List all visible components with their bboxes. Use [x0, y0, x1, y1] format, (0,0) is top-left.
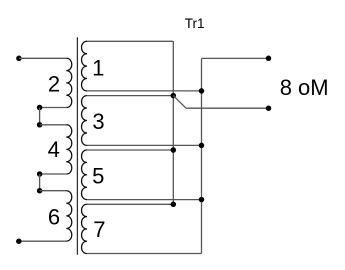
wire winding 5 bottom lead	[87, 199, 202, 201]
winding 3	[82, 96, 87, 146]
wire output plus	[202, 57, 269, 59]
junction bus A winding 5	[171, 147, 177, 153]
wire winding 7 top lead	[87, 203, 173, 205]
winding 1	[82, 41, 87, 91]
wire tap to winding 6	[40, 190, 67, 192]
wire winding 6 bottom to terminal	[19, 240, 67, 242]
wire winding 3 bottom lead	[87, 144, 202, 146]
terminal top-left	[16, 56, 22, 62]
junction tap A2	[37, 122, 43, 128]
wire tap link B	[39, 174, 41, 191]
transformer Tr1 core	[76, 37, 78, 255]
wire winding 4 bottom to tap	[40, 173, 67, 175]
junction tap B2	[37, 188, 43, 194]
junction bus B winding 5	[199, 197, 205, 203]
terminal output minus	[266, 105, 272, 111]
svg-text:8 oM: 8 oM	[280, 75, 329, 100]
svg-text:7: 7	[93, 217, 105, 242]
svg-text:Tr1: Tr1	[185, 16, 205, 31]
winding 7	[82, 204, 87, 253]
winding 5	[82, 150, 87, 200]
svg-text:4: 4	[48, 137, 60, 162]
wire terminal to winding 2	[19, 57, 66, 59]
wire winding 5 top lead	[87, 149, 173, 151]
wire tap link A	[39, 108, 41, 125]
junction bus A winding 7	[171, 202, 177, 208]
winding 4	[66, 125, 71, 174]
junction tap B1	[37, 171, 43, 177]
bus node A vertical	[172, 41, 174, 204]
wire winding 1 bottom lead	[87, 90, 202, 92]
winding 6	[66, 191, 71, 241]
terminal bottom-left	[16, 238, 22, 244]
svg-text:6: 6	[48, 204, 60, 229]
svg-text:5: 5	[92, 163, 104, 188]
bus node B vertical	[201, 59, 203, 254]
svg-text:3: 3	[92, 109, 104, 134]
junction bus B winding 1	[199, 88, 205, 94]
junction bus A winding 3	[171, 93, 177, 99]
wire winding 7 bottom lead	[87, 253, 202, 255]
wire output diagonal	[173, 96, 186, 109]
terminal output plus	[266, 56, 272, 62]
wire winding 3 top lead	[87, 95, 173, 97]
junction tap A1	[37, 105, 43, 111]
junction bus B winding 3	[199, 143, 205, 149]
svg-text:2: 2	[48, 72, 60, 97]
svg-text:1: 1	[92, 56, 104, 81]
winding 2	[66, 58, 71, 107]
wire tap to winding 4	[40, 124, 67, 126]
wire winding 1 top lead	[87, 40, 173, 42]
wire output minus	[186, 107, 269, 109]
wire winding 2 bottom to tap	[40, 107, 67, 109]
